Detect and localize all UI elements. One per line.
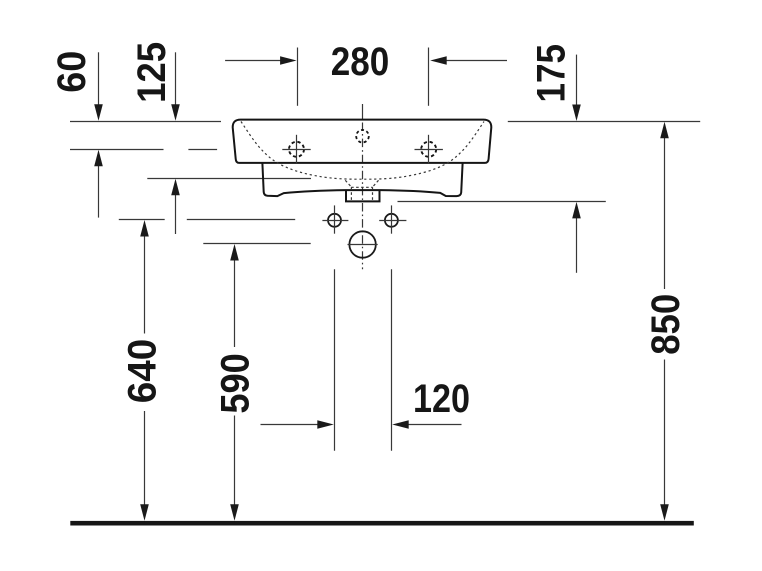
svg-text:60: 60 bbox=[50, 51, 94, 93]
svg-text:175: 175 bbox=[530, 44, 574, 103]
svg-text:640: 640 bbox=[121, 339, 165, 404]
svg-text:280: 280 bbox=[331, 40, 390, 84]
svg-text:590: 590 bbox=[214, 353, 258, 414]
svg-text:125: 125 bbox=[130, 42, 174, 103]
svg-text:120: 120 bbox=[413, 377, 470, 421]
svg-text:850: 850 bbox=[644, 294, 688, 355]
